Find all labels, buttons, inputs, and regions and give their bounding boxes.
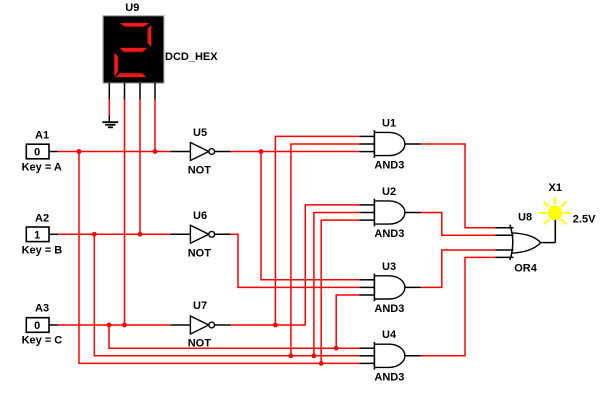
svg-text:U9: U9 [125,2,139,14]
svg-text:U2: U2 [382,186,396,198]
svg-text:U7: U7 [193,300,207,312]
svg-text:NOT: NOT [188,165,212,177]
svg-text:OR4: OR4 [514,263,538,275]
svg-text:U1: U1 [382,117,396,129]
svg-text:0: 0 [34,320,40,332]
svg-text:Key = B: Key = B [22,244,63,256]
svg-text:0: 0 [34,147,40,159]
svg-text:AND3: AND3 [374,228,404,240]
svg-text:U5: U5 [193,127,207,139]
svg-text:NOT: NOT [188,338,212,350]
svg-text:2.5V: 2.5V [573,214,596,226]
svg-text:X1: X1 [549,182,562,194]
svg-text:AND3: AND3 [374,303,404,315]
svg-text:AND3: AND3 [374,160,404,172]
svg-text:NOT: NOT [188,247,212,259]
svg-text:U4: U4 [382,329,397,341]
svg-text:U6: U6 [193,210,207,222]
svg-text:A3: A3 [35,303,49,315]
svg-text:AND3: AND3 [374,371,404,383]
svg-text:DCD_HEX: DCD_HEX [165,51,218,63]
svg-text:1: 1 [34,229,40,241]
svg-text:U3: U3 [382,261,396,273]
svg-text:A2: A2 [35,213,49,225]
svg-text:U8: U8 [518,212,532,224]
svg-text:A1: A1 [35,130,49,142]
svg-text:Key = C: Key = C [22,335,63,347]
svg-text:Key = A: Key = A [22,162,62,174]
